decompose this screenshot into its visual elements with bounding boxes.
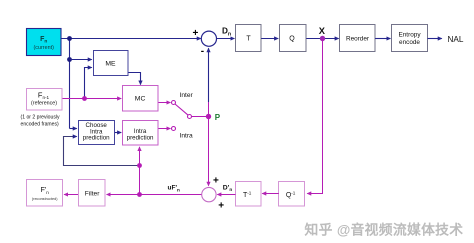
node uF'n junction [137, 192, 142, 197]
block MC [123, 86, 159, 112]
node P [206, 114, 211, 119]
block T [236, 25, 262, 52]
switch contact Inter [172, 101, 176, 105]
svg-text:prediction: prediction [127, 134, 154, 141]
block F'n reconstructed [27, 180, 63, 207]
node reference junction [82, 96, 87, 101]
svg-text:Entropy: Entropy [398, 32, 421, 39]
svg-text:MC: MC [135, 96, 146, 103]
svg-text:+: + [218, 201, 224, 212]
block Q inverse [279, 182, 305, 207]
wire Filter to F'n [64, 194, 79, 196]
node feedback junction [137, 163, 142, 168]
svg-text:(reconstructed): (reconstructed) [32, 197, 58, 201]
svg-text:知乎 @音视频流媒体技术: 知乎 @音视频流媒体技术 [305, 221, 464, 237]
svg-text:encode: encode [399, 39, 420, 46]
block Choose Intra prediction [79, 121, 115, 145]
svg-text:T: T [246, 36, 251, 43]
wire T to Q [261, 38, 278, 40]
block Reorder [340, 25, 376, 52]
wire Entropy to NAL [428, 38, 442, 40]
wire P down to adder2 [208, 117, 210, 186]
wire F_n vertical branch [69, 39, 71, 129]
block F_n current [27, 29, 62, 56]
svg-text:prediction: prediction [83, 135, 110, 142]
svg-text:Reorder: Reorder [346, 36, 370, 43]
wire pole to P [192, 116, 209, 118]
wire to ME input 1 [70, 59, 92, 61]
wire to Choose input 1 [70, 128, 77, 130]
adder1 [201, 31, 216, 46]
block Filter [79, 180, 106, 207]
wire Intra prediction to Intra contact [158, 128, 171, 130]
wire Qinv to Tinv [262, 193, 279, 195]
svg-text:-: - [201, 46, 204, 57]
svg-text:+: + [193, 28, 199, 39]
svg-text:(current): (current) [34, 45, 55, 51]
svg-text:Inter: Inter [180, 92, 194, 99]
adder2 [202, 187, 216, 201]
block Intra prediction [123, 121, 159, 146]
wire junction up to Intra prediction [139, 147, 141, 195]
wire F_n to adder1 [61, 38, 201, 40]
wire Q to Reorder [306, 38, 338, 40]
switch pole [188, 115, 192, 119]
block Q [280, 25, 307, 52]
svg-text:+: + [213, 175, 219, 186]
svg-text:(reference): (reference) [31, 100, 57, 106]
node F_n junction ME [67, 57, 72, 62]
switch arm [175, 104, 188, 115]
wire Choose to Intra prediction [115, 132, 122, 134]
svg-text:Intra: Intra [180, 132, 194, 139]
wire Reorder to Entropy [375, 38, 390, 40]
wire X down to Qinv [307, 39, 322, 194]
svg-text:Filter: Filter [85, 190, 100, 197]
wire uF'n feedback to Choose input 2 [64, 137, 140, 166]
wire ME to MC [128, 73, 141, 85]
svg-text:encoded frames): encoded frames) [21, 121, 60, 127]
wire adder2 to Filter [107, 194, 202, 196]
svg-text:Q: Q [289, 36, 295, 43]
wire MC to Inter contact [158, 102, 171, 104]
wire adder1 to T [216, 38, 234, 40]
wire reference to ME input 2 [85, 68, 92, 99]
block ME [94, 51, 129, 76]
block F_n-1 reference [27, 89, 63, 111]
svg-text:P: P [215, 113, 221, 122]
svg-text:X: X [319, 26, 326, 36]
wire P up to adder1 minus [208, 100, 210, 117]
svg-text:NAL: NAL [448, 35, 464, 44]
svg-text:ME: ME [105, 60, 116, 67]
block Entropy encode [392, 25, 428, 52]
svg-text:(1 or 2 previously: (1 or 2 previously [21, 115, 61, 121]
wire reference to MC [62, 98, 121, 100]
node X [320, 36, 325, 41]
wire Tinv to adder2 [217, 194, 235, 196]
switch contact Intra [172, 127, 176, 131]
node F_n junction top [67, 36, 72, 41]
block T inverse [236, 182, 262, 207]
